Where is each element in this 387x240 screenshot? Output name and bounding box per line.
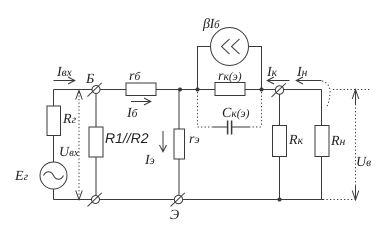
current arrow Iн bbox=[296, 77, 321, 84]
voltage source Eг sine wave bbox=[44, 172, 64, 180]
dotted link from circuit to Uв line top bbox=[333, 89, 370, 91]
capacitor Cк(э) right dotted vertical bbox=[261, 92, 263, 127]
svg-text:Rг: Rг bbox=[62, 112, 77, 127]
wire: bottom rail bbox=[54, 199, 324, 201]
junction dot at Rк bottom bbox=[278, 198, 282, 202]
Uвх up arrowhead bbox=[76, 91, 83, 100]
current source βIб chevron 1 bbox=[222, 39, 230, 54]
resistor rк(э) bbox=[215, 83, 245, 96]
current arrow Iвх bbox=[54, 77, 75, 84]
wire: top rail from generator corner to Rн corner bbox=[54, 89, 322, 91]
current source βIб chevron 2 bbox=[232, 39, 240, 54]
svg-text:rк(э): rк(э) bbox=[218, 69, 242, 84]
wire: generator bottom to bottom rail bbox=[53, 189, 55, 200]
Uвх measuring dotted line bbox=[78, 92, 80, 197]
Uв down arrowhead bbox=[352, 191, 359, 201]
svg-text:Rн: Rн bbox=[330, 134, 346, 149]
Uв measuring line bottom solid stub bbox=[355, 186, 357, 200]
capacitor Cк(э) left dotted lead bbox=[198, 126, 214, 128]
current source βIб circle bbox=[211, 28, 249, 66]
dotted link from bottom rail to Uв line bottom bbox=[323, 199, 356, 201]
svg-text:Iк: Iк bbox=[266, 65, 278, 80]
capacitor Cк(э) left dotted vertical bbox=[197, 92, 199, 127]
svg-text:βIб: βIб bbox=[202, 17, 220, 32]
terminal node Э bbox=[174, 195, 182, 203]
junction dot at rэ branch bbox=[178, 88, 182, 92]
svg-text:rб: rб bbox=[129, 69, 141, 84]
svg-text:Cк(э): Cк(э) bbox=[222, 106, 250, 121]
junction dot at source right bracket bbox=[260, 88, 264, 92]
svg-text:Iб: Iб bbox=[126, 106, 139, 121]
svg-text:Rк: Rк bbox=[288, 133, 304, 148]
current arrow Iк bbox=[267, 77, 289, 84]
resistor R1//R2 bbox=[89, 127, 103, 157]
svg-text:Iэ: Iэ bbox=[144, 153, 155, 168]
resistor Rк bbox=[273, 126, 287, 157]
resistor rэ bbox=[174, 129, 185, 159]
capacitor Cк(э) right dotted lead bbox=[249, 126, 262, 128]
resistor rб bbox=[126, 83, 156, 96]
current arrow Iб bbox=[131, 98, 151, 105]
voltage source Eг circle bbox=[40, 162, 67, 189]
wire: Rк branch from node К to bottom rail bbox=[279, 94, 281, 200]
wire: emitter branch from top rail through rэ to node Э bbox=[178, 90, 180, 196]
terminal node К bbox=[275, 86, 283, 94]
Uвх down arrowhead bbox=[76, 191, 83, 200]
svg-text:Uвх: Uвх bbox=[59, 145, 79, 160]
wire: base branch Б to R1//R2 to bottom rail bbox=[95, 94, 97, 200]
capacitor Cк(э) plates bbox=[228, 121, 232, 135]
wire: left vertical of generator branch bbox=[53, 90, 55, 163]
current source βIб right bracket wire bbox=[249, 47, 262, 90]
current arrow Iэ bbox=[160, 131, 167, 152]
svg-text:Uв: Uв bbox=[356, 155, 371, 170]
svg-text:Eг: Eг bbox=[14, 169, 29, 184]
resistor Rн bbox=[315, 126, 329, 157]
resistor Rг bbox=[47, 106, 61, 136]
svg-text:Iвх: Iвх bbox=[56, 65, 73, 80]
capacitor Cк(э) right solid lead bbox=[232, 126, 249, 128]
Uв measuring dotted line bbox=[355, 104, 357, 186]
terminal node Б bbox=[92, 86, 100, 94]
svg-text:R1//R2: R1//R2 bbox=[105, 130, 149, 146]
dotted current path curve at Iн bbox=[322, 81, 330, 107]
svg-text:rэ: rэ bbox=[189, 132, 200, 147]
Uв measuring line top solid stub bbox=[355, 90, 357, 105]
Uв up arrowhead bbox=[352, 90, 359, 100]
current source βIб left bracket wire bbox=[198, 47, 211, 90]
capacitor Cк(э) left solid lead bbox=[213, 126, 227, 128]
svg-text:Б: Б bbox=[85, 72, 94, 87]
terminal node input bottom bbox=[92, 196, 100, 204]
svg-text:Э: Э bbox=[170, 208, 179, 223]
wire: Rн branch from top rail corner to bottom rail bbox=[321, 90, 323, 200]
junction dot at source left bracket bbox=[196, 88, 200, 92]
svg-text:Iн: Iн bbox=[296, 65, 308, 80]
